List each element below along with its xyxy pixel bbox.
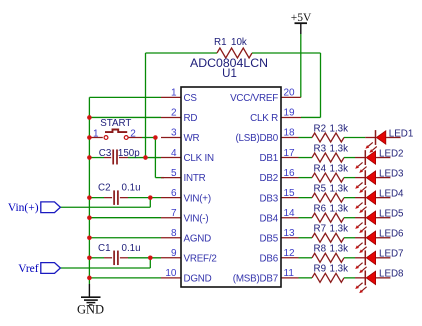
svg-text:LED8: LED8 <box>379 269 404 280</box>
svg-text:+5V: +5V <box>291 12 312 24</box>
svg-text:8: 8 <box>171 228 177 239</box>
svg-text:0.1u: 0.1u <box>122 243 141 254</box>
svg-text:R4: R4 <box>314 163 327 174</box>
svg-text:19: 19 <box>284 108 296 119</box>
svg-text:Vref: Vref <box>18 263 39 275</box>
svg-text:1.3k: 1.3k <box>330 244 349 255</box>
svg-text:1: 1 <box>93 129 99 140</box>
svg-text:14: 14 <box>284 208 296 219</box>
svg-text:GND: GND <box>77 303 104 317</box>
svg-text:16: 16 <box>284 168 296 179</box>
svg-text:1.3k: 1.3k <box>330 264 349 275</box>
svg-text:9: 9 <box>171 248 177 259</box>
svg-text:LED4: LED4 <box>379 188 404 199</box>
svg-text:R6: R6 <box>314 204 327 215</box>
svg-text:R9: R9 <box>314 264 327 275</box>
svg-text:(LSB)DB0: (LSB)DB0 <box>235 133 278 144</box>
svg-text:1.3k: 1.3k <box>330 123 349 134</box>
svg-text:DB2: DB2 <box>260 173 278 184</box>
svg-text:R3: R3 <box>314 143 327 154</box>
svg-text:LED6: LED6 <box>379 229 404 240</box>
svg-text:1.3k: 1.3k <box>330 143 349 154</box>
svg-text:5: 5 <box>171 168 177 179</box>
svg-text:START: START <box>100 118 131 129</box>
svg-text:R8: R8 <box>314 244 327 255</box>
svg-text:20: 20 <box>284 88 296 99</box>
svg-text:1.3k: 1.3k <box>330 183 349 194</box>
svg-text:10k: 10k <box>231 37 247 48</box>
svg-text:2: 2 <box>130 129 136 140</box>
svg-text:1.3k: 1.3k <box>330 224 349 235</box>
svg-text:150p: 150p <box>118 148 140 159</box>
svg-text:LED7: LED7 <box>379 249 404 260</box>
svg-text:1: 1 <box>171 88 177 99</box>
svg-text:13: 13 <box>284 228 296 239</box>
svg-text:CLK R: CLK R <box>250 113 278 124</box>
svg-text:7: 7 <box>171 208 177 219</box>
svg-text:DB1: DB1 <box>260 153 278 164</box>
svg-text:DB6: DB6 <box>260 253 279 264</box>
svg-text:VCC/VREF: VCC/VREF <box>230 93 278 104</box>
svg-text:U1: U1 <box>222 68 237 80</box>
svg-text:18: 18 <box>284 128 296 139</box>
svg-text:LED2: LED2 <box>379 148 404 159</box>
svg-text:C3: C3 <box>99 148 112 159</box>
svg-text:R5: R5 <box>314 183 327 194</box>
svg-text:C1: C1 <box>98 243 111 254</box>
svg-text:R1: R1 <box>214 37 227 48</box>
svg-text:12: 12 <box>284 248 296 259</box>
svg-text:DGND: DGND <box>184 273 212 284</box>
svg-text:4: 4 <box>171 148 177 159</box>
svg-text:AGND: AGND <box>184 233 212 244</box>
svg-text:R2: R2 <box>314 123 327 134</box>
svg-text:LED1: LED1 <box>389 128 414 139</box>
svg-text:17: 17 <box>284 148 296 159</box>
svg-text:2: 2 <box>171 108 177 119</box>
svg-text:INTR: INTR <box>184 173 206 184</box>
svg-text:CS: CS <box>184 93 198 104</box>
svg-text:DB5: DB5 <box>260 233 279 244</box>
svg-text:VIN(+): VIN(+) <box>184 193 211 204</box>
svg-text:11: 11 <box>284 268 295 279</box>
svg-text:(MSB)DB7: (MSB)DB7 <box>233 273 278 284</box>
svg-text:DB4: DB4 <box>260 213 279 224</box>
svg-text:C2: C2 <box>98 183 111 194</box>
svg-text:LED3: LED3 <box>379 168 404 179</box>
svg-text:0.1u: 0.1u <box>122 183 141 194</box>
svg-text:10: 10 <box>165 268 177 279</box>
svg-text:1.3k: 1.3k <box>330 163 349 174</box>
svg-text:LED5: LED5 <box>379 209 404 220</box>
svg-text:1.3k: 1.3k <box>330 204 349 215</box>
svg-text:CLK IN: CLK IN <box>184 153 215 164</box>
svg-text:R7: R7 <box>314 224 327 235</box>
svg-text:Vin(+): Vin(+) <box>8 202 39 214</box>
svg-text:WR: WR <box>184 133 200 144</box>
svg-text:VREF/2: VREF/2 <box>184 253 217 264</box>
svg-text:VIN(-): VIN(-) <box>184 213 209 224</box>
svg-text:6: 6 <box>171 188 177 199</box>
svg-text:RD: RD <box>184 113 198 124</box>
svg-text:DB3: DB3 <box>260 193 279 204</box>
svg-text:15: 15 <box>284 188 296 199</box>
svg-text:3: 3 <box>171 128 177 139</box>
